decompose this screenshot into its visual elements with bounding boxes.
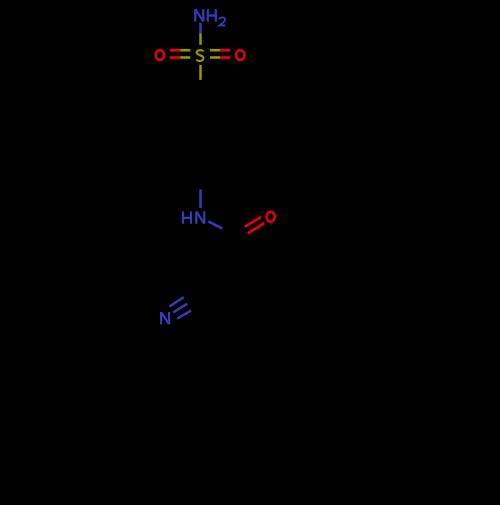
double bond S1=O2 lower line, S half [210,56,220,59]
bond N2-C5 amide (N colored half) [208,221,222,228]
atom label N3 (nitrile nitrogen) [161,312,169,324]
bond N1-S1 (upper half, N colored) [199,23,202,33]
double bond S1=O2 lower line, O half [220,56,230,59]
atom label O3 (amide carbonyl oxygen) [266,212,274,222]
double bond S1=O1 upper line, O half [170,49,181,52]
bond N1-S1 (lower half, S colored) [199,33,202,45]
double bond C5=O3 upper line, O half [245,217,261,227]
double bond S1=O1 upper line, S half [180,49,190,52]
bond S1-C1 ring (S colored half; carbon half invisible on black) [199,65,202,80]
double bond C5=O3 lower line, O half [248,223,265,234]
atom label O2 (right sulfonyl oxygen) [236,50,244,60]
double bond S1=O2 upper line, O half [220,49,230,52]
double bond S1=O1 lower line, S half [180,56,190,59]
triple bond C7#N3 top line, N half [169,297,183,306]
double bond S1=O2 upper line, S half [210,49,220,52]
atom label N2 (amide nitrogen, HN) [183,211,204,223]
triple bond C7#N3 bottom line, N half [177,311,191,319]
bond C4(ring)-N2 (N colored half; carbon half invisible) [199,190,202,208]
atom label N1 (NH2 amine nitrogen) [195,9,225,25]
atom label S1 (sulfonyl sulfur) [197,50,204,61]
atom label O1 (left sulfonyl oxygen) [156,50,164,60]
double bond S1=O1 lower line, O half [170,56,181,59]
triple bond C7#N3 middle line, N half [173,304,187,313]
